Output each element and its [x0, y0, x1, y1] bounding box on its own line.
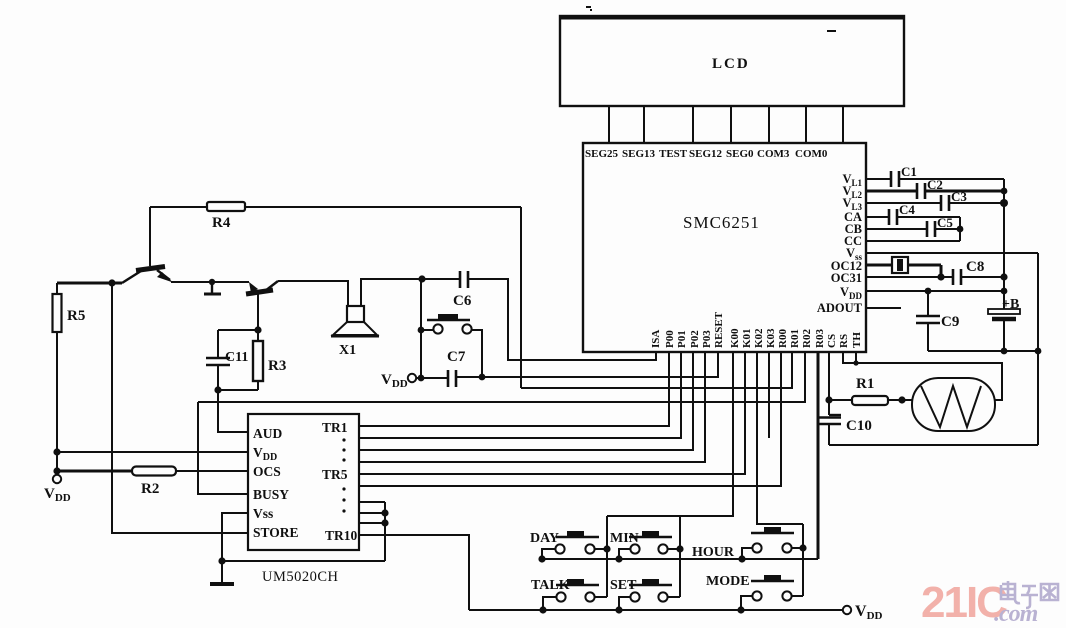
wire ADOUT stub — [866, 307, 901, 309]
svg-text:Vss: Vss — [253, 506, 273, 521]
wire CA to C4 — [866, 216, 960, 218]
svg-text:OCS: OCS — [253, 464, 281, 479]
svg-text:SEG13: SEG13 — [622, 148, 656, 160]
resistor R2 — [57, 467, 248, 498]
svg-text:ADOUT: ADOUT — [817, 301, 863, 315]
capacitor C9 — [916, 291, 959, 351]
svg-text:DAY: DAY — [530, 531, 559, 546]
resistor R3 — [253, 330, 286, 390]
svg-text:R3: R3 — [268, 358, 286, 374]
wire R4 left to Q1 base riser — [150, 206, 207, 208]
junction bus1 DAY left — [538, 555, 545, 562]
pushbutton S7 — [421, 314, 482, 377]
svg-text:C8: C8 — [966, 259, 984, 275]
wire riser x421 VDD to C6 node — [420, 279, 422, 379]
wire Q1 emitter left to R5 corner — [57, 282, 122, 285]
svg-text:K02: K02 — [753, 328, 765, 348]
svg-text:P02: P02 — [689, 330, 701, 348]
svg-text:P01: P01 — [676, 330, 688, 348]
wire VDD pin to rail — [866, 290, 1004, 292]
SMC6251 right pin labels — [817, 172, 863, 315]
svg-text:TR1: TR1 — [322, 420, 348, 435]
svg-text:C10: C10 — [846, 418, 872, 434]
wire VL3 to C3 — [866, 202, 1004, 204]
svg-text:C11: C11 — [225, 350, 248, 365]
UM5020CH right pin labels TR1 TR5 TR10 with dots — [322, 420, 358, 543]
transistor Q2 — [246, 281, 278, 330]
wire HOUR left elbow to bus1 — [742, 548, 752, 559]
wire VL2 to C2 — [866, 190, 1004, 193]
wire RC bottom to AUD pin — [218, 390, 248, 432]
capacitor C2 — [917, 177, 943, 199]
junction rail VL2 — [1001, 188, 1008, 195]
wire RC bottom rail — [218, 389, 258, 391]
resistor R4 — [207, 202, 245, 231]
junction OC31 node — [937, 273, 944, 280]
far right rail Vss down — [1037, 253, 1039, 445]
wire TR8 stub — [359, 522, 385, 524]
resistor R5 — [53, 283, 86, 452]
wire TR3 line to P02 — [359, 352, 693, 450]
svg-text:C1: C1 — [901, 164, 917, 179]
wire TR10 to bottom bus — [359, 535, 469, 610]
wire TR7 stub — [359, 512, 385, 514]
svg-text:K03: K03 — [765, 328, 777, 348]
wire UM Vss pin to ground — [222, 513, 248, 583]
svg-text:R1: R1 — [856, 376, 874, 392]
svg-text:BUSY: BUSY — [253, 487, 289, 502]
svg-text:COM3: COM3 — [757, 148, 790, 160]
wire VL1 to C1 — [866, 178, 1004, 180]
svg-text:.com: .com — [994, 601, 1038, 627]
capacitor C4 — [889, 202, 915, 225]
wire column HOUR MODE — [802, 524, 804, 596]
wire OC31 to C8 — [866, 276, 1004, 278]
junction VDD riser — [418, 375, 425, 382]
IC U1 SMC6251 body — [583, 143, 866, 352]
UM5020CH left pin labels — [253, 426, 299, 540]
junction DAY right column — [603, 545, 610, 552]
svg-text:R03: R03 — [814, 329, 826, 348]
ground Vss — [210, 582, 234, 586]
pushbutton TALK — [531, 578, 607, 610]
wire long line R4drop to R01 riser — [521, 352, 792, 388]
svg-text:SEG12: SEG12 — [689, 148, 723, 160]
wire OC12 corner down to OC31 — [940, 265, 943, 277]
svg-text:R01: R01 — [789, 329, 801, 348]
junction MIN right column — [676, 545, 683, 552]
svg-text:VDD: VDD — [855, 603, 883, 622]
junction RC bottom left — [214, 386, 221, 393]
junction crystal left — [898, 396, 905, 403]
svg-text:C2: C2 — [927, 177, 943, 192]
svg-text:P03: P03 — [701, 330, 713, 348]
capacitor C5 — [927, 215, 953, 237]
junction button drop on VDD line — [479, 374, 486, 381]
wire row bus1 — [542, 558, 818, 560]
svg-text:RESET: RESET — [713, 311, 725, 348]
wire column MIN SET — [679, 516, 681, 597]
wire VDD terminal column — [56, 452, 58, 475]
junction R1 left node — [825, 396, 832, 403]
wire VDD to UM VDD pin — [57, 451, 248, 453]
svg-text:K01: K01 — [741, 328, 753, 348]
pushbutton DAY — [530, 531, 607, 559]
capacitor C7 — [447, 349, 466, 387]
wire TR5 line to K01 — [359, 352, 745, 474]
svg-text:TH: TH — [851, 332, 863, 348]
wire TR6 stub — [359, 501, 385, 503]
terminal VDD middle — [381, 372, 416, 390]
pushbutton MODE — [706, 574, 803, 610]
junction button left on riser — [418, 327, 425, 334]
node CA-CB-CC vertical — [959, 217, 961, 241]
junction rail C8 — [1000, 273, 1007, 280]
svg-text:C4: C4 — [899, 202, 915, 217]
wire long line BUSY to R02 riser — [198, 352, 805, 402]
junction battery bottom — [1001, 348, 1008, 355]
wire TR2 line to P01 — [359, 352, 681, 438]
svg-text:COM0: COM0 — [795, 148, 828, 160]
svg-text:C9: C9 — [941, 314, 959, 330]
svg-text:R2: R2 — [141, 481, 159, 497]
battery B — [988, 297, 1020, 319]
svg-text:TR10: TR10 — [325, 528, 358, 543]
svg-text:CS: CS — [826, 334, 838, 348]
wire R4 right to drop at x521 — [245, 206, 521, 208]
junction TR7 rail — [381, 509, 388, 516]
svg-text:C6: C6 — [453, 293, 472, 309]
svg-text:+B: +B — [1002, 297, 1019, 312]
wire Q1 collector to Q2 — [171, 281, 249, 283]
junction VDD-UM — [53, 448, 60, 455]
speck inside LCD top right — [827, 30, 836, 32]
wire column DAY TALK — [606, 516, 608, 597]
wire TR6 line to R00 — [359, 352, 781, 486]
right rail from C1 row down to battery row — [1003, 179, 1005, 351]
pushbutton SET — [610, 578, 680, 610]
junction Q2 base at RC top — [254, 326, 261, 333]
wire TR stub rail down to ground line — [384, 502, 386, 561]
speck top-left of LCD — [586, 6, 592, 11]
svg-text:R4: R4 — [212, 215, 231, 231]
wire CS pin down to R1 C10 node — [828, 352, 830, 415]
svg-text:R00: R00 — [777, 329, 789, 348]
capacitor C3 — [941, 189, 967, 211]
svg-text:R5: R5 — [67, 308, 85, 324]
wire OC12 to filter — [866, 264, 941, 267]
junction bus2 SET left — [615, 606, 622, 613]
wire crystal loop bottom — [829, 444, 1038, 446]
svg-text:SMC6251: SMC6251 — [683, 213, 760, 232]
svg-text:SEG0: SEG0 — [726, 148, 754, 160]
svg-text:ISA: ISA — [650, 330, 662, 348]
wire TR1 line to P00 — [359, 352, 669, 426]
logo dianziwang — [1001, 581, 1058, 608]
junction bus2 MODE left — [737, 606, 744, 613]
svg-text:TEST: TEST — [659, 148, 688, 160]
terminal VDD bottom right — [843, 603, 883, 622]
wire speaker right terminal up and right to C6 — [361, 279, 460, 306]
svg-text:OC31: OC31 — [831, 271, 862, 285]
svg-text:VDD: VDD — [381, 372, 408, 390]
junction C6 left riser — [418, 275, 425, 282]
pushbutton HOUR — [692, 527, 803, 560]
svg-text:AUD: AUD — [253, 426, 282, 441]
wire STORE to left riser — [112, 283, 248, 533]
wire RS pin down and over to crystal right — [843, 352, 1002, 400]
junction rail VL3 — [1000, 199, 1008, 207]
junction C9 top — [925, 288, 932, 295]
junction TH on RS line — [853, 360, 858, 365]
svg-text:C3: C3 — [951, 189, 967, 204]
svg-text:VDD: VDD — [840, 285, 863, 301]
junction bus1 MIN left — [615, 555, 622, 562]
wire K03 pin stub down — [768, 352, 770, 438]
svg-text:P00: P00 — [664, 330, 676, 348]
wire ground line to TR stub rail — [222, 560, 385, 562]
junction bus2 TALK left — [539, 606, 546, 613]
wire LCD to SMC bus (7 lines) — [609, 106, 843, 143]
svg-text:LCD: LCD — [712, 56, 750, 72]
svg-text:C5: C5 — [937, 215, 953, 230]
crystal Y1 oscillator — [912, 378, 995, 431]
wire C7 to RESET riser — [456, 352, 718, 377]
capacitor C1 — [891, 164, 917, 187]
junction R2 line — [53, 467, 60, 474]
wire VDD terminal to C7 — [416, 377, 448, 379]
svg-text:UM5020CH: UM5020CH — [262, 569, 339, 585]
wire Vss to far right rail — [866, 252, 1038, 254]
svg-text:R02: R02 — [801, 329, 813, 348]
wire TH pin stub to RS line — [855, 352, 857, 363]
capacitor C8 — [953, 259, 984, 285]
LCD block — [560, 16, 904, 106]
wire drop x521 down to line y388 — [520, 207, 522, 388]
wire R03 down to row bus1 — [817, 352, 820, 559]
speaker X1 — [331, 306, 379, 358]
wire row bus2 — [469, 609, 843, 611]
component ceramic filter on OC12 — [892, 257, 908, 273]
svg-text:VDD: VDD — [253, 445, 277, 463]
wire CC to node — [866, 240, 960, 242]
SMC6251 top pin labels SEG25 SEG13 TEST SEG12 SEG0 COM3 COM0 — [585, 148, 828, 160]
svg-text:HOUR: HOUR — [692, 545, 735, 560]
terminal VDD left — [44, 475, 71, 504]
wire C6 right over and down to ISA line — [468, 279, 656, 360]
junction TR8 rail — [381, 519, 388, 526]
SMC6251 bottom pin labels (rotated) — [650, 311, 863, 348]
junction HOUR right column — [799, 544, 806, 551]
wire bottom of C9 battery to rails — [928, 350, 1038, 352]
wire RC top rail — [218, 329, 258, 331]
transistor Q1 — [122, 207, 173, 283]
svg-text:SEG25: SEG25 — [585, 148, 619, 160]
capacitor C11 — [206, 330, 248, 390]
junction far rail bottom line — [1035, 348, 1042, 355]
junction bus1 HOUR left — [738, 555, 745, 562]
junction CB node — [957, 226, 964, 233]
svg-text:MODE: MODE — [706, 574, 750, 589]
wire K02 staircase to HOUR MODE columns — [757, 352, 803, 524]
wire CB to C5 — [866, 228, 960, 230]
wire Q2 collector to speaker — [278, 281, 348, 306]
capacitor C10 — [817, 415, 872, 445]
svg-text:STORE: STORE — [253, 525, 299, 540]
junction ground line — [218, 557, 225, 564]
electrode symbol on wire — [204, 279, 221, 294]
svg-text:C7: C7 — [447, 349, 466, 365]
wire BUSY left and up to long line — [198, 402, 248, 494]
junction STORE riser on emitter wire — [108, 279, 115, 286]
IC U2 UM5020CH body — [248, 414, 359, 585]
resistor R1 — [829, 376, 912, 405]
capacitor C6 — [453, 271, 472, 309]
pushbutton MIN — [610, 531, 680, 559]
svg-text:RS: RS — [838, 334, 850, 348]
svg-text:TR5: TR5 — [322, 467, 348, 482]
svg-text:X1: X1 — [339, 343, 356, 358]
svg-text:VDD: VDD — [44, 486, 71, 504]
wire TR4 line to P03 — [359, 352, 705, 462]
wire K00 staircase to DAY MIN columns — [607, 352, 733, 516]
svg-text:K00: K00 — [729, 328, 741, 348]
junction rail VDD — [1001, 288, 1008, 295]
